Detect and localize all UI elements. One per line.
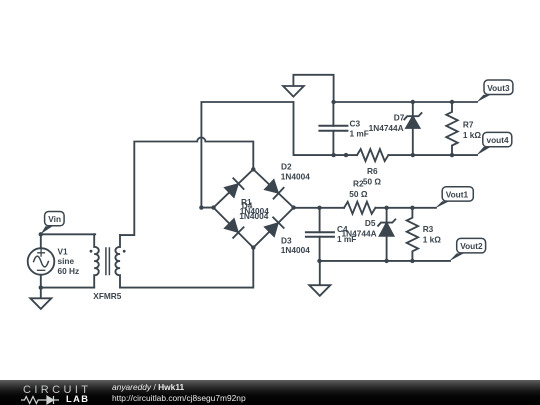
svg-text:XFMR5: XFMR5 [93,291,122,301]
node junction C3 top [331,100,335,104]
lower top rail from bridge right vertex [294,207,436,209]
svg-text:D3: D3 [281,236,292,246]
svg-text:R7: R7 [463,119,474,129]
svg-text:C3: C3 [350,118,361,128]
zener diode D7 [404,102,421,155]
R2 label [349,179,368,199]
svg-text:1 mF: 1 mF [350,129,369,139]
D1/D4 overlapping labels [239,197,269,221]
voltage source V1 [28,248,55,275]
ground (lower, below C4) [309,261,330,296]
node dot Vin [39,232,43,236]
net flag vout4 [476,132,512,155]
node junction R7 bottom [450,153,454,157]
resistor R7 [446,102,457,155]
node junction R7 top [450,100,454,104]
ground (V1) [30,288,51,309]
node left vertex [211,205,215,209]
net flag Vout2 [449,238,486,261]
node top vertex [251,167,255,171]
R3 label [423,224,442,244]
node junction R3 bottom [410,259,414,263]
CircuitLab logo [23,384,91,396]
transformer XFMR5 [90,234,126,287]
node junction D5 bottom [384,259,388,263]
V1 label [58,246,80,276]
node right vertex [291,205,295,209]
D5 label [342,218,377,238]
svg-text:60 Hz: 60 Hz [58,266,80,276]
svg-text:D7: D7 [394,113,405,123]
wire bridge left vertex loop: up, right, down to lower rail [201,102,357,208]
svg-text:50 Ω: 50 Ω [363,176,382,186]
C4 label [337,224,356,244]
resistor R3 [407,208,418,261]
svg-text:Vout2: Vout2 [460,241,483,251]
svg-text:Vout1: Vout1 [446,190,469,200]
diode bridge [211,167,295,250]
net flag Vin [41,212,64,235]
node junction C3 bottom [331,153,335,157]
svg-text:R3: R3 [423,224,434,234]
svg-text:1N4744A: 1N4744A [369,123,404,133]
top rail (ground net) [334,101,477,103]
D7 label [369,113,405,133]
svg-text:R2: R2 [353,179,364,189]
node dot V1 gnd [39,285,43,289]
footer credit text [112,382,184,392]
svg-text:1N4004: 1N4004 [281,245,310,255]
bridge frame [214,169,294,247]
svg-text:1N4004: 1N4004 [281,172,310,182]
node bottom vertex [251,245,255,249]
lower bottom rail [320,260,451,262]
svg-text:R6: R6 [367,166,378,176]
svg-text:Vin: Vin [48,214,61,224]
resistor R6 [357,149,388,161]
D2 label [281,161,310,181]
node junction C4 top [317,206,321,210]
svg-text:Vout3: Vout3 [487,83,510,93]
node dot wire end [199,205,203,209]
node junction C4 bottom / ground [317,259,321,263]
net flag Vout1 [435,187,474,209]
R7 label [463,119,482,140]
node junction D7 top [411,100,415,104]
wire V1 top to flag node to transformer [41,234,95,248]
wire V1 bottom to ground rail to transformer [41,275,94,288]
zener diode D5 [378,208,395,261]
C3 label [350,118,369,138]
svg-text:1N4744A: 1N4744A [342,228,377,238]
diode D1 top-left [224,178,243,197]
upper bottom rail [388,154,477,156]
resistor R2 [344,202,375,214]
net flag Vout3 [476,80,513,102]
svg-text:50 Ω: 50 Ω [349,189,368,199]
svg-text:1N4004: 1N4004 [239,211,268,221]
node junction D7 bottom [411,153,415,157]
diode D4 bottom-left [224,218,243,237]
svg-text:D2: D2 [281,161,292,171]
diode D2 top-right [264,179,283,198]
svg-text:sine: sine [58,256,75,266]
svg-text:vout4: vout4 [487,135,510,145]
svg-text:D4: D4 [242,200,253,210]
capacitor C4 [306,208,334,261]
diode D3 bottom-right [264,217,283,236]
wire transformer secondary bottom to bridge bottom vertex [120,248,253,288]
footer bar [0,380,540,405]
svg-text:1 kΩ: 1 kΩ [463,130,482,140]
R6 label [363,166,382,186]
wire transformer secondary top to bridge top vertex (with hop) [120,137,253,235]
node junction D5 top [384,206,388,210]
node junction R6 left terminal [344,153,348,157]
svg-text:D5: D5 [365,218,376,228]
ground (top, above C3) [283,75,334,102]
node junction R3 top [410,206,414,210]
capacitor C3 [319,102,347,155]
svg-text:V1: V1 [58,246,69,256]
svg-text:1 kΩ: 1 kΩ [423,234,442,244]
D3 label [281,236,310,256]
